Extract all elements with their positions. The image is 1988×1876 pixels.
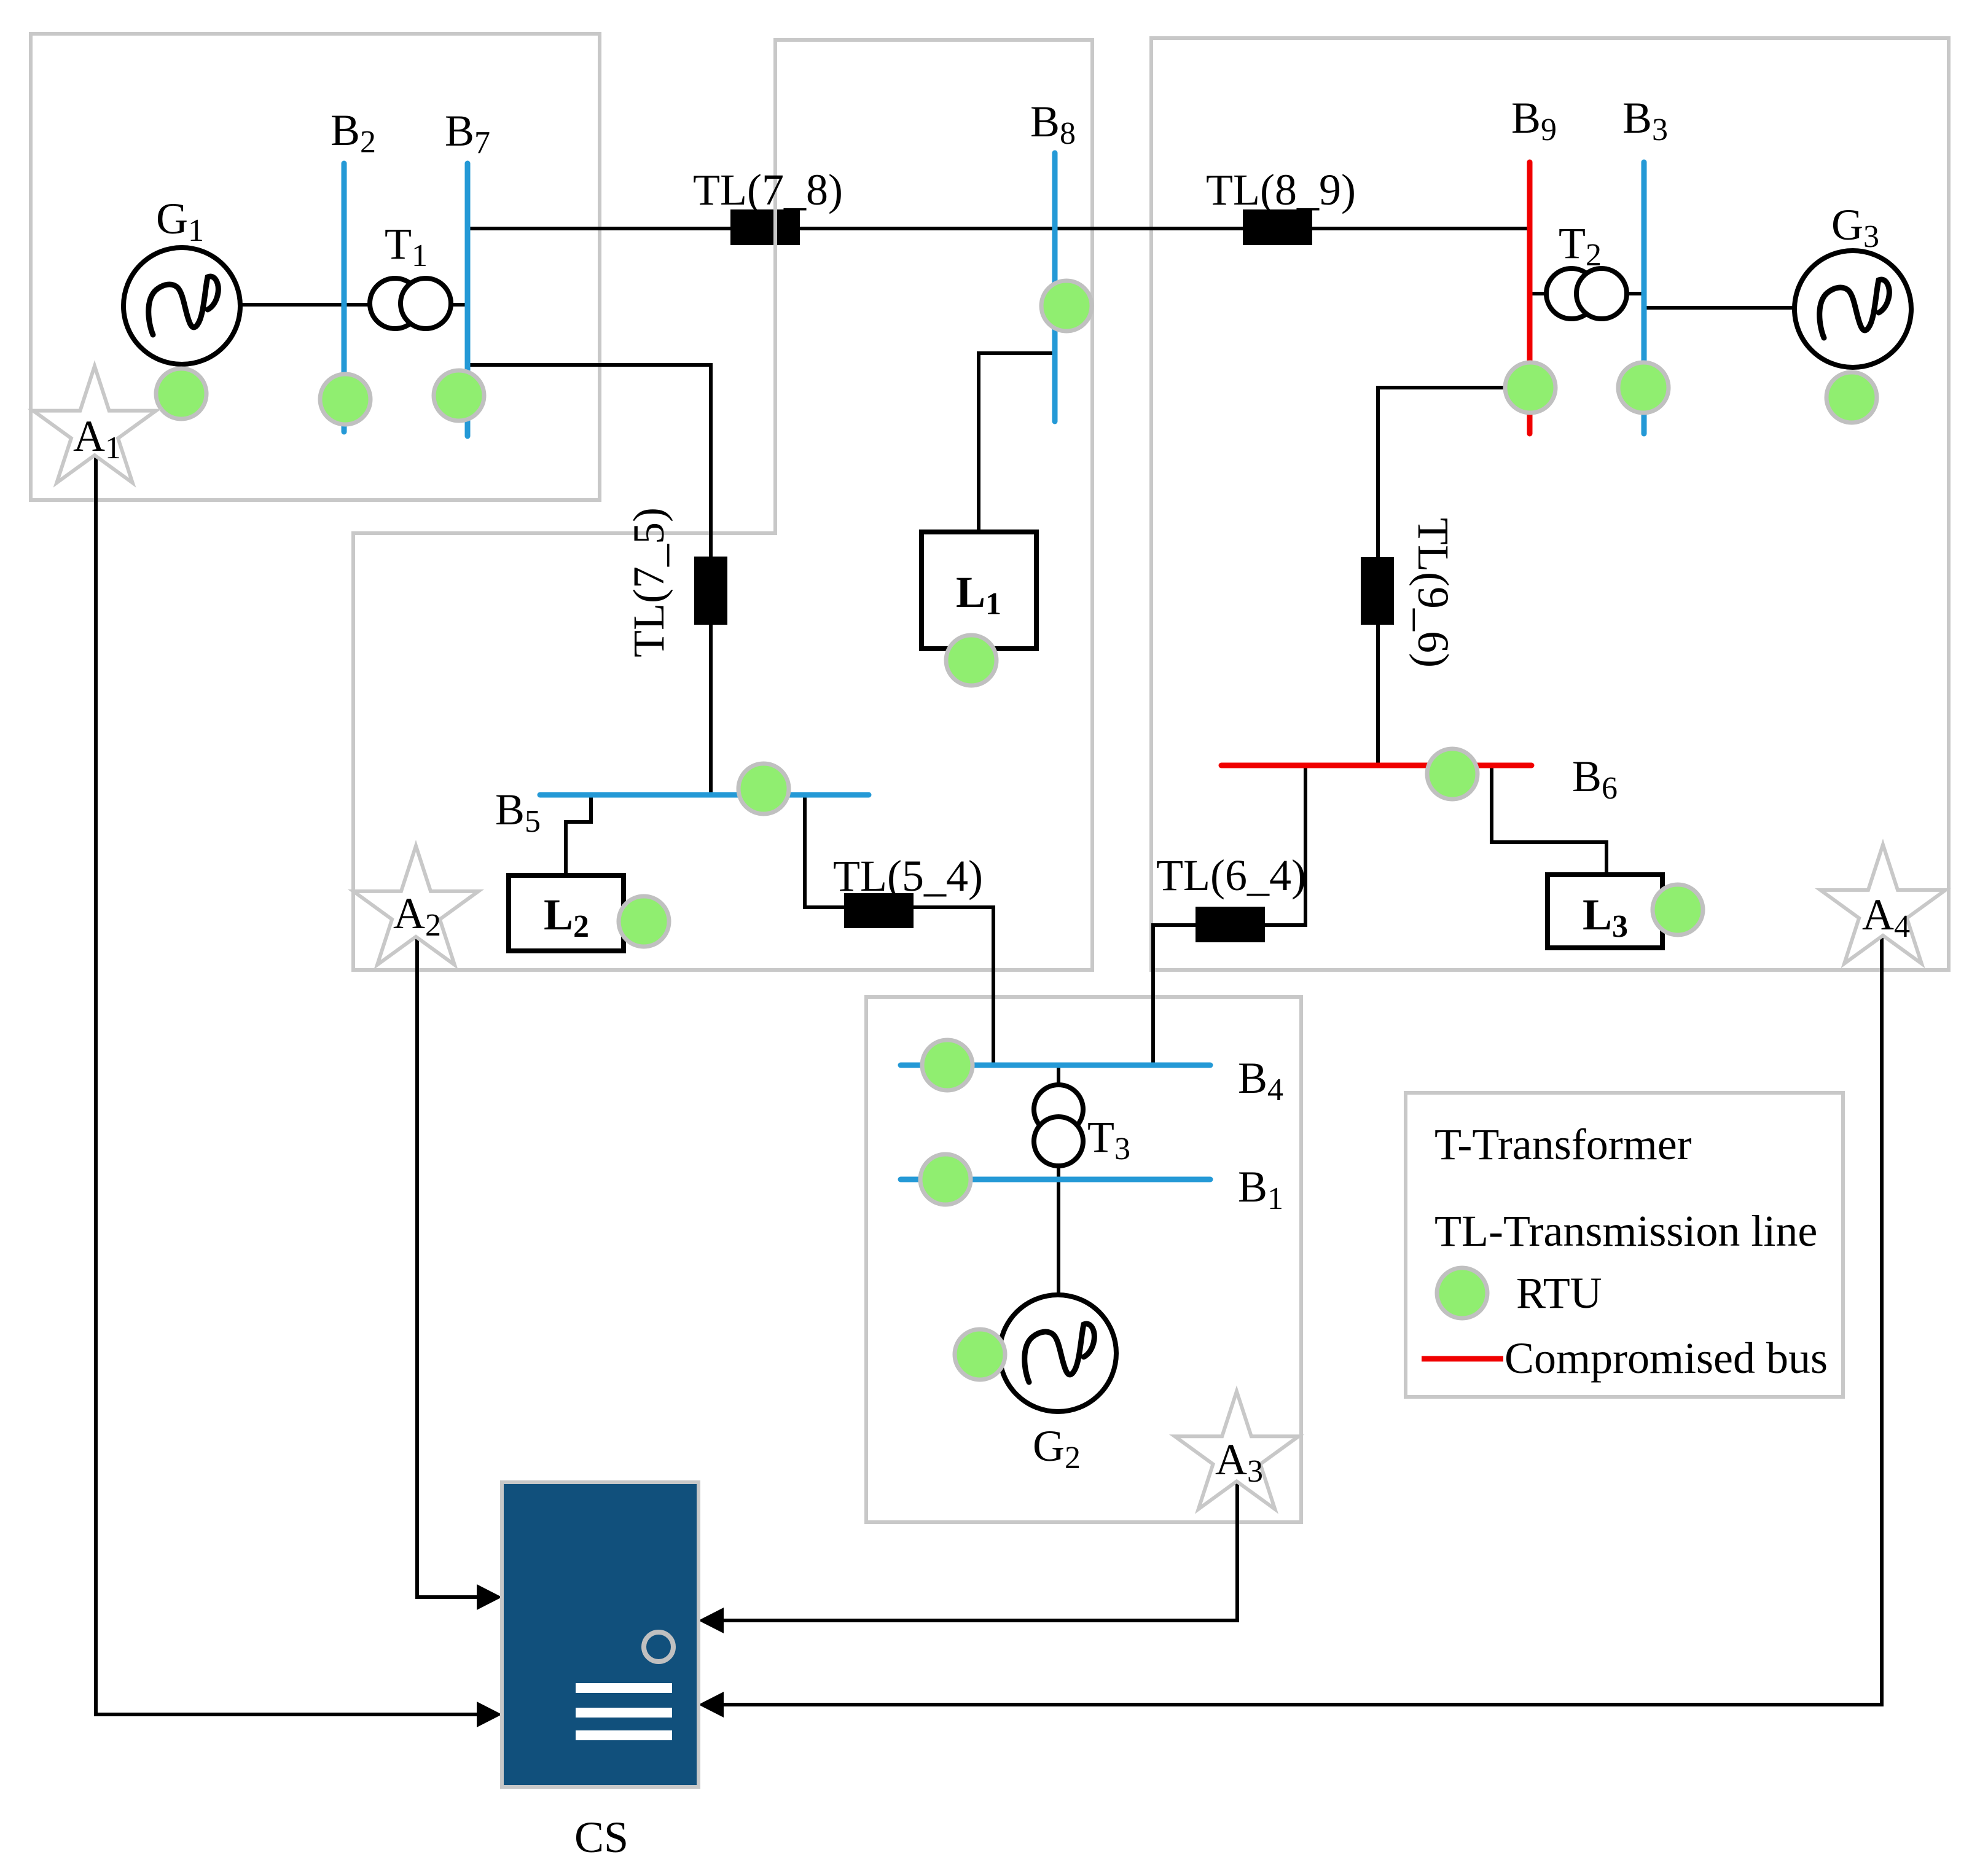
svg-text:Compromised bus: Compromised bus [1505, 1334, 1828, 1383]
svg-text:TL-Transmission line: TL-Transmission line [1434, 1206, 1817, 1256]
svg-text:TL(7_8): TL(7_8) [693, 165, 843, 214]
svg-text:TL(7_5): TL(7_5) [624, 507, 673, 657]
svg-text:TL(5_4): TL(5_4) [833, 851, 983, 901]
svg-text:TL(8_9): TL(8_9) [1206, 165, 1356, 214]
svg-text:RTU: RTU [1516, 1268, 1602, 1318]
svg-text:TL(6_4): TL(6_4) [1156, 851, 1306, 900]
svg-text:TL(9_6): TL(9_6) [1409, 518, 1458, 668]
svg-text:T-Transformer: T-Transformer [1434, 1120, 1692, 1169]
svg-text:CS: CS [574, 1813, 628, 1862]
